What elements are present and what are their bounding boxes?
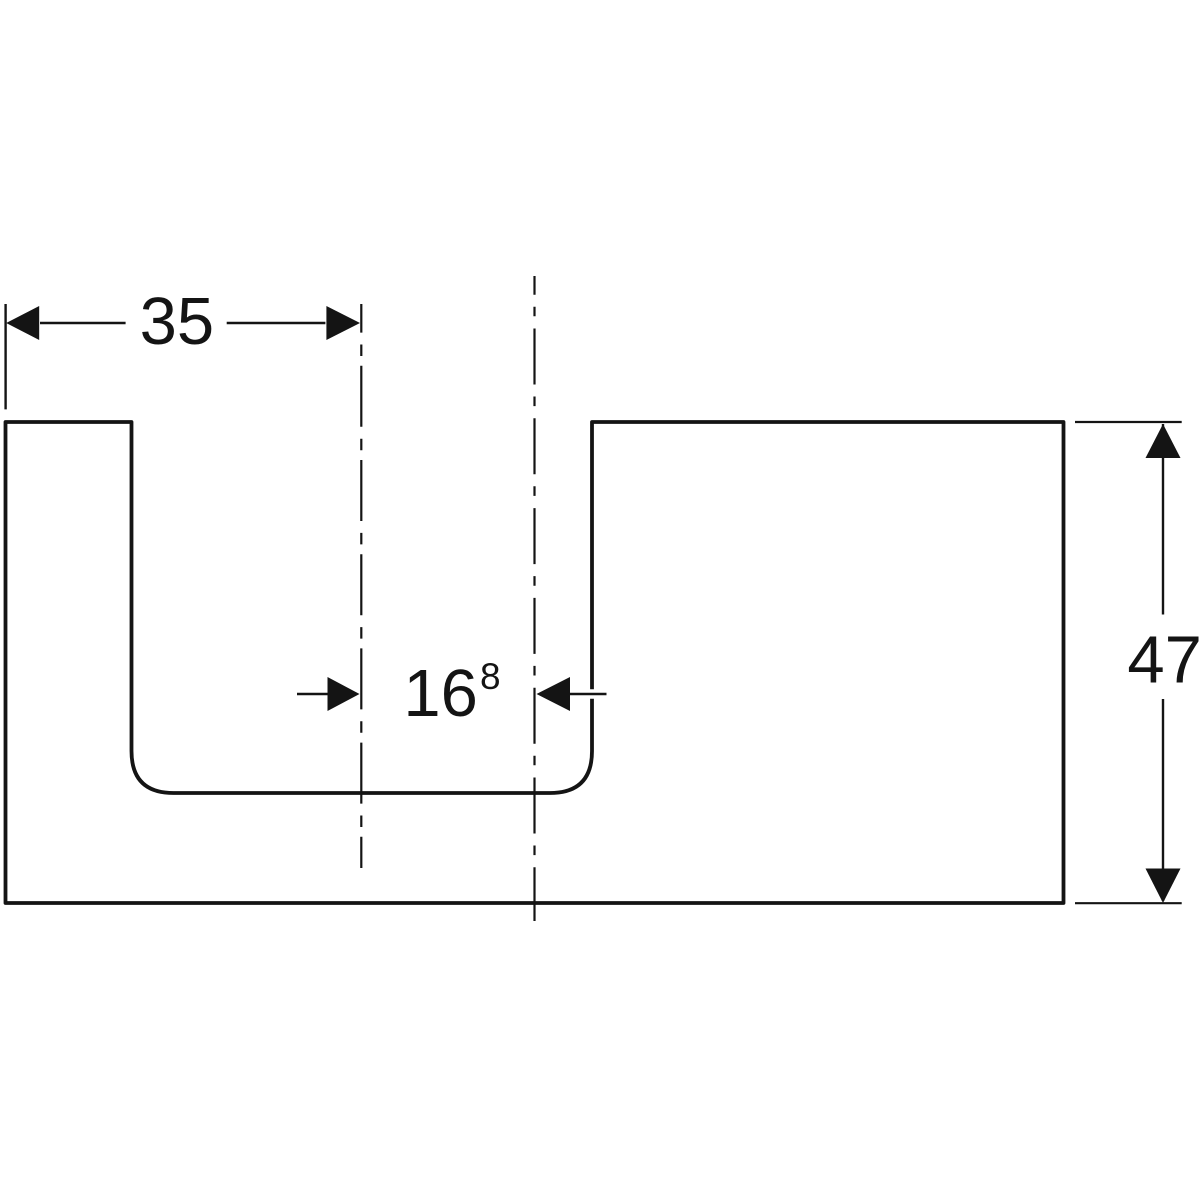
- svg-text:47: 47: [1127, 623, 1200, 698]
- svg-text:8: 8: [480, 656, 501, 697]
- svg-text:35: 35: [140, 284, 215, 359]
- svg-text:16: 16: [403, 656, 478, 731]
